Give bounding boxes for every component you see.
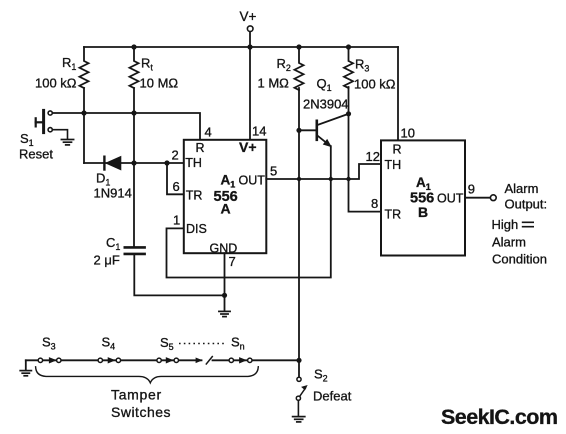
wire: reset line from S1 to pin 4 [52, 113, 200, 140]
ground (pin 7) [219, 311, 230, 316]
wire: tamper line left drop to ground [25, 360, 27, 370]
wire: DIS pin 1 down, across, up to Q1 emitter [167, 146, 331, 277]
svg-text:S1: S1 [20, 131, 34, 148]
label Tamper Switches [111, 387, 171, 421]
svg-text:Reset: Reset [19, 147, 53, 162]
label 10 MOhm (Rt) [140, 76, 179, 91]
ground (S1) [61, 140, 73, 145]
svg-text:100 kΩ: 100 kΩ [354, 77, 396, 92]
switch S1 (pushbutton) [36, 110, 53, 132]
label D1 / 1N914 [94, 171, 132, 201]
svg-text:2N3904: 2N3904 [303, 97, 349, 112]
svg-text:High: High [492, 217, 519, 232]
svg-text:4: 4 [205, 125, 212, 140]
svg-text:Q1: Q1 [317, 76, 332, 93]
brace: tamper switches group [36, 367, 259, 383]
U2 pin name R [393, 143, 402, 157]
U2 label A1 556 OUT B [410, 175, 464, 220]
pin number 9 [468, 181, 475, 196]
label S2 / Defeat [313, 367, 352, 404]
wire: R3 lead down to OUT line [348, 87, 350, 179]
svg-text:TH: TH [185, 156, 202, 170]
svg-text:2: 2 [172, 148, 179, 163]
V+ terminal [247, 26, 253, 32]
pin number 8 [371, 196, 378, 211]
svg-text:R1: R1 [62, 55, 76, 72]
pin number 12 [366, 149, 380, 164]
wire: pin 10 drop from rail [397, 47, 399, 140]
label R2 / 1 MOhm [258, 56, 291, 91]
svg-text:Condition: Condition [492, 252, 547, 267]
svg-text:V+: V+ [239, 139, 257, 155]
pin number 10 [401, 126, 415, 141]
svg-text:5: 5 [270, 164, 277, 179]
svg-text:Rt: Rt [141, 56, 153, 73]
svg-text:1 MΩ: 1 MΩ [258, 76, 290, 91]
svg-text:Output:: Output: [505, 196, 548, 211]
U1 pin name GND [210, 241, 238, 255]
label R3 / 100 kOhm [354, 57, 396, 92]
transistor Q1 2N3904 [299, 114, 349, 147]
svg-text:Tamper: Tamper [111, 387, 162, 403]
svg-text:8: 8 [371, 196, 378, 211]
svg-text:DIS: DIS [186, 222, 207, 236]
label V+ [240, 9, 257, 24]
wire: TR pin 8 connector [349, 179, 382, 212]
svg-text:7: 7 [229, 254, 236, 269]
svg-text:C1: C1 [106, 235, 120, 252]
svg-text:1N914: 1N914 [94, 186, 132, 201]
svg-text:R3: R3 [355, 57, 369, 74]
U1 pin name DIS [186, 222, 207, 236]
label C1 / 2 uF [94, 235, 121, 268]
op-amp U1 556 A block [184, 140, 266, 253]
label R1 [62, 55, 76, 72]
pin number 14 [252, 124, 266, 139]
resistor R3 [344, 47, 353, 88]
svg-text:TR: TR [385, 208, 402, 222]
pin number 1 [173, 213, 180, 228]
wire: Rt bottom lead down to capacitor C1 [133, 88, 135, 246]
label Q1 / 2N3904 [303, 76, 349, 112]
svg-text:12: 12 [366, 149, 380, 164]
dotted leader between S5 and Sn [179, 343, 227, 345]
label S3 [42, 335, 56, 352]
wire: R1 bottom lead down to diode line [83, 88, 85, 163]
wire: R2 line down to S2 [298, 88, 300, 377]
svg-text:SeekIC.com: SeekIC.com [441, 405, 557, 429]
svg-text:S4: S4 [102, 335, 116, 352]
svg-text:V+: V+ [240, 9, 257, 24]
svg-text:1: 1 [173, 213, 180, 228]
switch Sn [229, 358, 252, 363]
watermark SeekIC.com [441, 405, 557, 429]
U1 pin name TH [185, 156, 202, 170]
svg-text:Sn: Sn [231, 335, 245, 352]
svg-text:100 kΩ: 100 kΩ [35, 76, 77, 91]
svg-text:10 MΩ: 10 MΩ [140, 76, 179, 91]
diode D1 1N914 [104, 157, 120, 170]
U1 label 556 A [214, 189, 238, 217]
switch S4 [98, 358, 121, 363]
switch S3 [38, 358, 61, 363]
U2 pin name TH [385, 158, 402, 172]
svg-text:S3: S3 [42, 335, 56, 352]
label Rt [141, 56, 153, 73]
wire: C1 bottom to ground node [134, 255, 224, 295]
wire: OUT pin 9 to terminal [465, 197, 490, 199]
label S1 / Reset [19, 131, 53, 162]
wire: S2 to ground [297, 400, 299, 416]
svg-text:S5: S5 [160, 335, 174, 352]
svg-text:Defeat: Defeat [313, 389, 352, 404]
U1 label A1 OUT [221, 173, 266, 190]
svg-text:TR: TR [186, 189, 203, 203]
label Sn [231, 335, 245, 352]
node: alarm output terminal [490, 195, 496, 201]
svg-text:TH: TH [385, 158, 402, 172]
U1 pin name TR [186, 189, 203, 203]
wire: line break slash between S5 and Sn [196, 357, 212, 364]
svg-text:GND: GND [210, 241, 238, 255]
wire: S1 lower contact to ground [52, 130, 67, 139]
resistor Rt [130, 47, 139, 88]
wire: V+ top rail [84, 46, 398, 48]
wire: pin 7 GND drop [224, 253, 226, 310]
wire: OUT pin 5 line to 556B TH pin 12 [266, 164, 381, 179]
svg-text:B: B [418, 204, 428, 220]
resistor R2 [295, 47, 304, 90]
pin number 6 [173, 179, 180, 194]
wire: tamper switch line [26, 359, 299, 361]
label High = Alarm Condition [492, 217, 547, 267]
label S4 [102, 335, 116, 352]
wire: diode line (R1 line to 556A TH pin 2) [84, 162, 184, 164]
svg-text:OUT: OUT [437, 192, 464, 206]
U1 pin name V+ [239, 139, 257, 155]
label 100 kOhm (R1) [35, 76, 77, 91]
switch S2 (defeat) [296, 377, 307, 400]
op-amp U2 556 B block [381, 140, 465, 255]
svg-text:R: R [393, 143, 402, 157]
switch S5 [157, 358, 179, 363]
svg-text:14: 14 [252, 124, 266, 139]
svg-text:2 μF: 2 μF [94, 253, 120, 268]
pin number 7 [229, 254, 236, 269]
pin number 2 [172, 148, 179, 163]
pin number 5 [270, 164, 277, 179]
svg-text:Switches: Switches [111, 404, 171, 420]
svg-text:Alarm: Alarm [505, 181, 539, 196]
svg-text:R2: R2 [277, 56, 291, 73]
pin number 4 [205, 125, 212, 140]
svg-text:A: A [221, 201, 231, 217]
svg-text:S2: S2 [314, 367, 328, 384]
U2 pin name TR [385, 208, 402, 222]
resistor R1 [80, 47, 89, 88]
svg-text:OUT: OUT [239, 174, 266, 188]
wire: V+ stem / pin 14 drop [249, 32, 251, 140]
svg-text:Alarm: Alarm [492, 234, 526, 249]
capacitor C1 [125, 247, 145, 254]
ground (tamper line) [20, 371, 31, 376]
wire: TR pin 6 hook [167, 163, 184, 194]
svg-text:10: 10 [401, 126, 415, 141]
svg-text:R: R [196, 141, 205, 155]
label S5 [160, 335, 174, 352]
svg-text:6: 6 [173, 179, 180, 194]
ground (S2) [293, 417, 305, 422]
svg-text:9: 9 [468, 181, 475, 196]
label Alarm Output [505, 181, 548, 211]
U1 pin name R [196, 141, 205, 155]
